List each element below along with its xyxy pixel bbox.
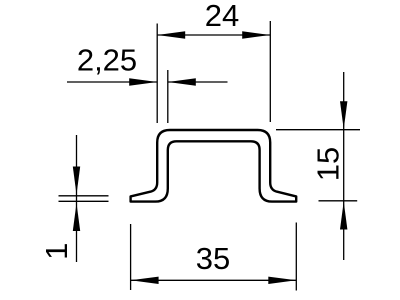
svg-text:24: 24 — [205, 0, 239, 33]
svg-text:35: 35 — [196, 241, 230, 276]
svg-text:15: 15 — [311, 147, 346, 181]
svg-text:2,25: 2,25 — [77, 43, 137, 78]
svg-text:1: 1 — [39, 243, 74, 260]
